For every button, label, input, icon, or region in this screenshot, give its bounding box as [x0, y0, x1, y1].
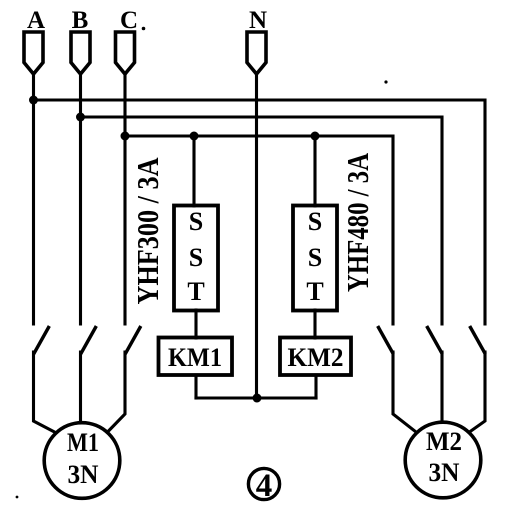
svg-text:KM1: KM1 [168, 343, 222, 372]
wire bus B [81, 117, 443, 324]
svg-text:YHF300 / 3A: YHF300 / 3A [130, 157, 165, 305]
wire bus C to U2 [313, 136, 316, 206]
terminal A [24, 32, 43, 74]
SST controller U1 [174, 206, 218, 311]
wire switch A to M1 [34, 352, 56, 433]
wire KM1 down [194, 375, 197, 398]
switch blade left A [35, 328, 49, 353]
wire U2 to KM2 [313, 310, 316, 338]
wire bus C to U1 [192, 136, 195, 206]
terminal B [71, 32, 90, 74]
svg-text:KM2: KM2 [288, 343, 344, 372]
wire phase A vertical [32, 73, 35, 324]
motor M1 [44, 423, 120, 499]
svg-text:M2: M2 [426, 427, 462, 456]
wire phase C vertical [123, 74, 126, 324]
contactor KM1 [159, 338, 233, 376]
junction dot N return [253, 394, 262, 403]
speck top right [384, 80, 387, 83]
wire switch to M2 right [470, 352, 486, 432]
motor M2 [405, 422, 481, 498]
terminal C [116, 32, 135, 74]
wire bus C [125, 136, 393, 324]
terminal N [247, 32, 266, 74]
switch blade left B [82, 328, 96, 353]
speck after C [142, 27, 146, 31]
wire switch C to M1 [108, 352, 125, 432]
wire phase B vertical [79, 73, 82, 324]
junction dot A bus [29, 96, 38, 105]
wire neutral N vertical [255, 73, 258, 398]
svg-text:3N: 3N [429, 458, 460, 487]
wire switch B to M1 [79, 352, 82, 422]
svg-text:S: S [189, 207, 203, 236]
switch blade right A [471, 328, 485, 353]
svg-text:C: C [120, 7, 138, 34]
wire U1 to KM1 [194, 310, 197, 338]
figure number 4 circle [248, 468, 279, 499]
speck bottom left [16, 496, 19, 499]
svg-text:T: T [306, 277, 323, 306]
svg-text:S: S [189, 243, 203, 272]
svg-text:M1: M1 [67, 428, 99, 457]
switch blade right C [379, 328, 393, 353]
svg-text:A: A [27, 7, 45, 34]
junction dot bus C to U1 [190, 132, 199, 141]
svg-text:T: T [187, 277, 204, 306]
junction dot bus C to U2 [311, 132, 320, 141]
svg-text:YHF480 / 3A: YHF480 / 3A [340, 153, 375, 292]
switch blade left C [126, 328, 140, 353]
svg-text:S: S [308, 243, 322, 272]
wire KM2 down [314, 375, 317, 398]
contactor KM2 [280, 338, 351, 376]
svg-text:N: N [249, 7, 267, 34]
svg-text:3N: 3N [68, 460, 99, 489]
SST controller U2 [293, 206, 337, 311]
wire KM interconnect [196, 396, 316, 399]
svg-text:S: S [308, 207, 322, 236]
switch blade right B [428, 328, 442, 353]
wire switch to M2 left [393, 352, 416, 432]
svg-text:4: 4 [256, 468, 273, 504]
junction dot C bus [121, 132, 130, 141]
wire switch to M2 middle [440, 352, 443, 421]
svg-text:B: B [72, 7, 89, 34]
wire bus A [34, 100, 486, 324]
junction dot B bus [76, 113, 85, 122]
